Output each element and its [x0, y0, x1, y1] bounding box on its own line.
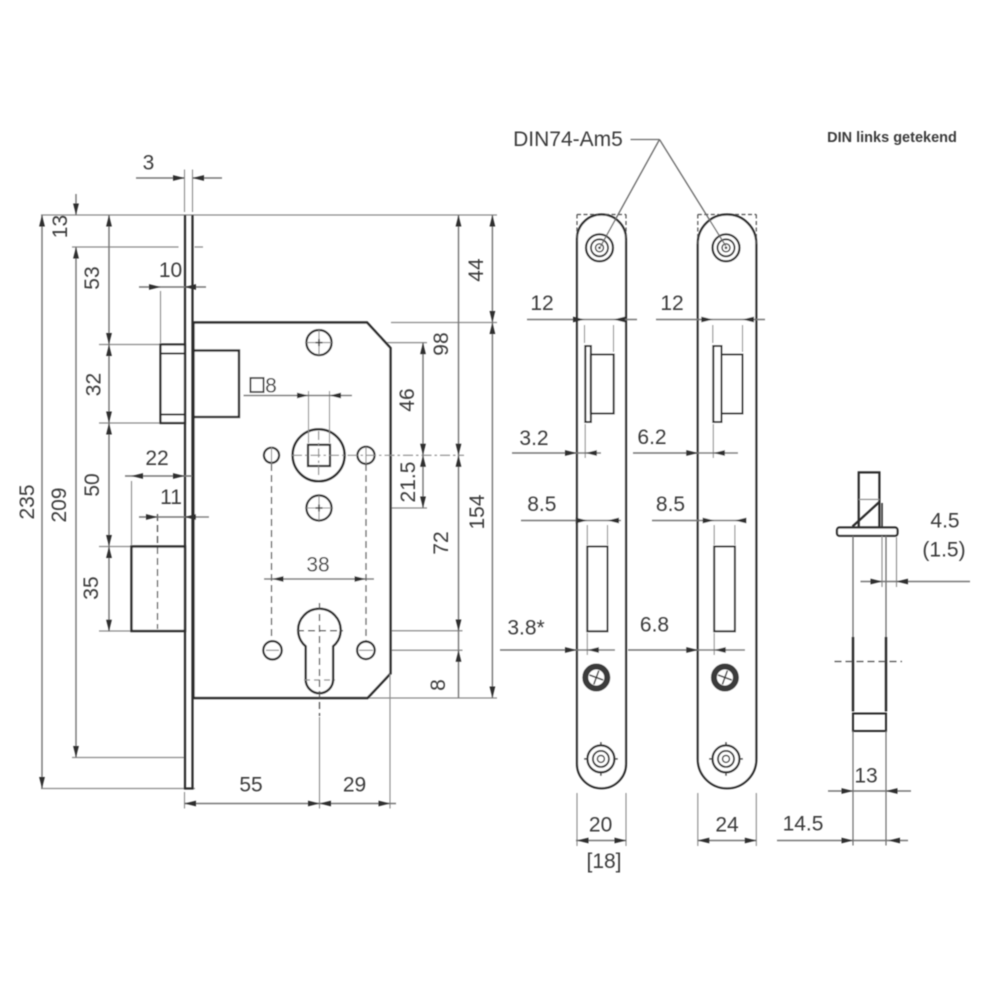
extension line bottom holes axis y=650.3 — [262, 649, 283, 651]
svg-text:72: 72 — [430, 531, 453, 554]
svg-text:21.5: 21.5 — [397, 462, 420, 503]
extension line lower screw axis y=508 — [307, 507, 428, 509]
dimension chain 44/154 far right — [491, 215, 493, 698]
deadbolt cutout faceplate 24 — [714, 547, 735, 632]
top screw faceplate 24 — [713, 234, 740, 261]
svg-text:44: 44 — [465, 258, 488, 282]
faceplate end cap top view — [837, 528, 898, 536]
dimension 24 faceplate 24 width — [697, 793, 699, 846]
svg-text:8.5: 8.5 — [527, 493, 556, 516]
dimension 3.2 faceplate 20 — [584, 424, 586, 458]
svg-text:3.8*: 3.8* — [507, 617, 544, 640]
svg-text:235: 235 — [16, 484, 39, 519]
dimension 13 case width — [828, 790, 911, 792]
svg-text:DIN74-Am5: DIN74-Am5 — [513, 128, 623, 151]
dimension square 8 hub — [308, 391, 310, 443]
faceplate 20mm hidden square corner dashes — [577, 214, 598, 216]
dimension 8.5 faceplate 20 — [586, 525, 588, 545]
extension line body bottom y=698 — [369, 697, 497, 699]
lower fixing screw hole — [306, 495, 331, 520]
dimension 11 — [139, 516, 209, 518]
latch cutout faceplate 24 — [713, 346, 721, 422]
extension line deadbolt bottom y=631 — [99, 630, 132, 632]
case cross box — [853, 714, 886, 732]
dimension 6.2 faceplate 24 — [712, 424, 714, 458]
svg-text:10: 10 — [159, 259, 182, 282]
svg-text:46: 46 — [396, 388, 419, 411]
dimension 8.5 faceplate 24 — [713, 525, 715, 545]
svg-text:38: 38 — [306, 554, 329, 577]
svg-text:98: 98 — [430, 332, 453, 355]
follower hub circle — [293, 429, 345, 481]
top fixing screw hole — [306, 330, 331, 355]
extension line faceplate bottom y=788.5 — [41, 788, 195, 790]
deadbolt centerline dashed — [157, 514, 159, 629]
dimension 14.5 — [777, 840, 908, 842]
svg-text:8: 8 — [265, 375, 277, 398]
svg-text:12: 12 — [530, 292, 553, 315]
dimension 12 faceplate 20 — [584, 325, 586, 343]
svg-text:24: 24 — [715, 814, 739, 837]
svg-text:53: 53 — [81, 266, 104, 289]
svg-text:11: 11 — [160, 486, 182, 509]
left hole at hub axis — [264, 448, 279, 463]
dimension 22 deadbolt depth — [131, 481, 133, 545]
bottom screw faceplate 20 — [587, 745, 614, 772]
dashed hole centerline right x=366 — [365, 464, 367, 658]
euro profile cylinder hole — [298, 609, 341, 694]
extension line deadbolt top y=546.5 — [99, 546, 131, 548]
dimension 20 faceplate 20 width — [576, 793, 578, 846]
extension line latch top y=344.5 — [99, 344, 160, 346]
svg-text:8.5: 8.5 — [656, 493, 685, 516]
faceplate side view — [184, 215, 186, 789]
dashed hole centerline left x=271.5 — [271, 464, 273, 658]
latch bolt head (right of faceplate) — [194, 351, 240, 418]
extension line top screw axis y=342.6 — [307, 342, 428, 344]
faceplate 24mm outline — [698, 215, 757, 789]
dimension 235 — [41, 215, 43, 789]
svg-text:35: 35 — [80, 576, 103, 599]
deadbolt — [132, 547, 186, 632]
svg-text:50: 50 — [81, 473, 104, 496]
dimension 209 — [75, 247, 77, 758]
latch bolt tail (left of faceplate) — [161, 345, 186, 424]
svg-text:14.5: 14.5 — [783, 813, 824, 836]
svg-text:6.2: 6.2 — [637, 426, 666, 449]
bottom screw faceplate 24 — [713, 745, 740, 772]
dimension 3 faceplate thickness — [184, 170, 186, 213]
svg-text:6.8: 6.8 — [640, 614, 669, 637]
right hole at hub axis — [357, 447, 374, 464]
svg-text:13: 13 — [49, 215, 72, 238]
svg-text:13: 13 — [854, 765, 877, 788]
latch bolt protruding top view — [859, 472, 880, 527]
dimension chain 53/32/50/35 — [108, 215, 110, 631]
svg-text:4.5: 4.5 — [930, 510, 959, 533]
faceplate 24mm hidden square corner dashes — [698, 214, 719, 216]
svg-text:32: 32 — [83, 373, 106, 396]
svg-text:20: 20 — [589, 814, 612, 837]
svg-text:8: 8 — [427, 679, 450, 691]
hub axis line over circles — [292, 454, 464, 456]
extension line cylinder axis y=630.7 — [343, 630, 463, 632]
extension line lock top y=215 — [41, 214, 497, 216]
dimension 6.8 faceplate 24 — [713, 633, 715, 655]
dimension 10 latch tail — [160, 291, 162, 343]
svg-text:DIN links getekend: DIN links getekend — [827, 130, 957, 146]
cylinder dashed centerline vertical — [319, 603, 321, 716]
bottom hole left — [263, 641, 281, 659]
bottom hole right — [357, 642, 375, 660]
cylinder dashed centerline horizontal — [297, 630, 343, 632]
dimension 3.8* faceplate 20 — [586, 633, 588, 655]
svg-text:[18]: [18] — [586, 850, 621, 873]
dimension 13 — [75, 194, 77, 215]
dimension chain 98/72/8 right — [458, 215, 460, 698]
svg-text:3: 3 — [143, 152, 155, 175]
svg-text:154: 154 — [466, 494, 489, 529]
dimension 55/29 bottom — [319, 717, 321, 809]
deadbolt cutout faceplate 20 — [587, 547, 607, 632]
latch bolt bevel — [853, 503, 879, 527]
dashed center axis right view — [835, 661, 903, 663]
extension line body top y=322.5 — [391, 322, 497, 324]
svg-text:(1.5): (1.5) — [922, 539, 965, 562]
extension line latch bottom y=423 — [99, 422, 160, 424]
lock case body outline — [194, 323, 391, 699]
dimension 4.5 (1.5) — [881, 536, 883, 587]
svg-text:55: 55 — [239, 774, 262, 797]
svg-text:3.2: 3.2 — [519, 427, 548, 450]
dimension 38 hole spacing — [264, 578, 374, 580]
extension line screw axis y=247 — [72, 246, 179, 248]
middle screw faceplate 24 — [714, 667, 736, 689]
faceplate 20mm outline — [577, 215, 626, 789]
svg-text:12: 12 — [660, 292, 683, 315]
hub square 8mm — [308, 445, 330, 466]
lock case walls top view — [852, 536, 854, 637]
extension line 209 bottom y=757.5 — [72, 757, 185, 759]
svg-text:29: 29 — [343, 774, 366, 797]
dimension chain 46/21.5 — [422, 343, 424, 508]
svg-text:209: 209 — [48, 487, 71, 522]
middle screw faceplate 20 — [585, 667, 607, 689]
svg-text:22: 22 — [145, 447, 168, 470]
latch cutout faceplate 20 — [585, 346, 591, 422]
top screw faceplate 20 — [586, 234, 613, 261]
dimension 12 faceplate 24 — [712, 325, 714, 343]
